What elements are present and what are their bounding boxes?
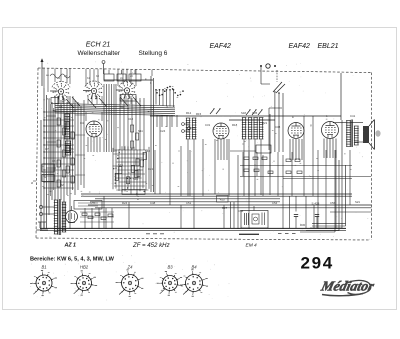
svg-text:450: 450	[220, 197, 225, 201]
svg-text:R27: R27	[222, 206, 228, 210]
svg-text:a: a	[31, 181, 33, 185]
svg-text:C21: C21	[148, 167, 154, 171]
svg-text:C48: C48	[150, 201, 156, 205]
svg-text:ZF = 452 kHz: ZF = 452 kHz	[132, 242, 170, 249]
svg-text:C51: C51	[186, 201, 192, 205]
svg-text:Bereiche: KW 6, 5, 4, 3, MW,: Bereiche: KW 6, 5, 4, 3, MW, LW	[30, 257, 115, 263]
svg-text:294: 294	[301, 254, 334, 273]
svg-text:EBL21: EBL21	[318, 43, 339, 50]
svg-text:R2: R2	[60, 183, 64, 187]
svg-text:B4: B4	[191, 265, 197, 270]
svg-text:Z4: Z4	[127, 265, 134, 270]
svg-text:S5: S5	[59, 105, 63, 109]
svg-text:C31: C31	[205, 123, 211, 127]
svg-text:EAF42: EAF42	[289, 43, 311, 50]
svg-text:C58: C58	[238, 209, 244, 213]
svg-text:EM 4: EM 4	[246, 243, 258, 249]
svg-text:HB2: HB2	[80, 265, 89, 270]
svg-text:C35: C35	[252, 111, 258, 115]
svg-text:C41: C41	[350, 114, 356, 118]
svg-text:C24: C24	[160, 129, 166, 133]
svg-text:ECH 21: ECH 21	[86, 41, 111, 48]
svg-text:S7: S7	[66, 115, 70, 119]
svg-text:EAF42: EAF42	[210, 43, 232, 50]
svg-text:B3: B3	[167, 265, 173, 270]
svg-text:Wellenschalter: Wellenschalter	[78, 50, 121, 57]
svg-text:S1: S1	[47, 97, 51, 101]
svg-text:C7: C7	[45, 147, 49, 151]
svg-text:R8: R8	[120, 105, 124, 109]
svg-text:AZ 1: AZ 1	[64, 242, 77, 248]
svg-text:C45: C45	[90, 201, 96, 205]
svg-text:C4: C4	[80, 121, 84, 125]
svg-text:S15: S15	[118, 163, 123, 167]
svg-text:R30: R30	[300, 223, 306, 227]
svg-text:Stellung 6: Stellung 6	[139, 50, 168, 57]
svg-text:S16: S16	[133, 177, 138, 181]
svg-text:R24: R24	[122, 201, 128, 205]
svg-text:S9: S9	[73, 109, 77, 113]
svg-text:R21: R21	[262, 121, 268, 125]
svg-text:R12: R12	[186, 111, 192, 115]
svg-text:R15: R15	[196, 112, 202, 116]
svg-text:S18: S18	[241, 111, 246, 115]
svg-text:C9: C9	[52, 159, 56, 163]
svg-text:B1: B1	[41, 265, 46, 270]
svg-text:S11: S11	[138, 129, 143, 133]
svg-text:S.428: S.428	[312, 202, 320, 206]
svg-text:S21: S21	[355, 200, 360, 204]
svg-text:R18: R18	[232, 123, 238, 127]
svg-text:S13: S13	[145, 149, 150, 153]
svg-text:C12: C12	[128, 117, 134, 121]
svg-text:C56: C56	[330, 201, 336, 205]
svg-text:C38: C38	[275, 125, 281, 129]
svg-text:R5: R5	[70, 147, 74, 151]
svg-text:C54: C54	[272, 201, 278, 205]
